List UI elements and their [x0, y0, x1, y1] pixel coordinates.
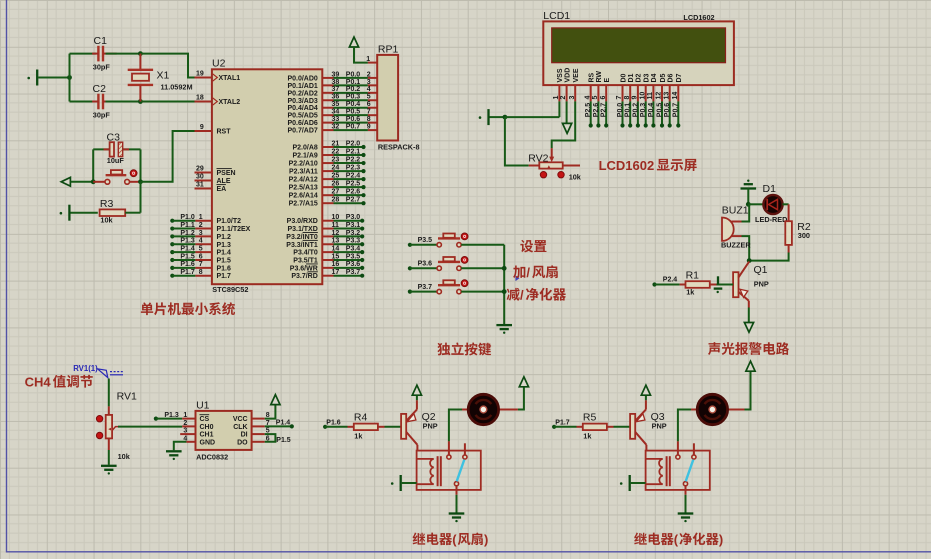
svg-text:P0.2/AD2: P0.2/AD2: [287, 90, 317, 97]
svg-text:R5: R5: [583, 411, 597, 423]
svg-text:32: 32: [332, 123, 340, 130]
wire P1.6 to R4: [325, 426, 347, 428]
wire arrow to junction: [70, 181, 93, 183]
svg-text:D7: D7: [676, 73, 683, 82]
svg-text:33: 33: [332, 116, 340, 123]
wire node to XTAL2: [140, 101, 194, 103]
pin 31 EA: [195, 181, 227, 193]
svg-text:P1.5: P1.5: [276, 437, 291, 444]
svg-text:P3.0: P3.0: [346, 214, 361, 221]
node C1/X1 junction: [138, 51, 143, 56]
wire C2 to node: [106, 101, 141, 103]
wire power to RP1 pin 1: [354, 47, 368, 63]
svg-text:1: 1: [553, 96, 560, 100]
svg-text:8: 8: [624, 96, 631, 100]
push button (reset): [93, 170, 140, 184]
svg-text:12: 12: [656, 92, 663, 100]
svg-text:XTAL2: XTAL2: [219, 99, 241, 106]
pin 26 P2.5/A13 net label P2.5: [289, 181, 366, 192]
wire VSS pin down: [558, 101, 560, 117]
pin 35 P0.4/AD4 net P0.4 to RP1 pin 6: [287, 101, 377, 112]
svg-text:P1.1: P1.1: [180, 222, 195, 229]
svg-text:1: 1: [183, 412, 187, 419]
svg-text:4: 4: [584, 96, 591, 100]
power terminal (LCD VDD, down): [563, 123, 572, 133]
svg-text:P0.6/AD6: P0.6/AD6: [287, 120, 317, 127]
pin 28 P2.7/A15 net label P2.7: [289, 197, 366, 208]
svg-text:D1: D1: [763, 183, 777, 195]
pin 9 RST: [195, 124, 232, 136]
svg-text:3: 3: [367, 79, 371, 86]
svg-text:10k: 10k: [118, 452, 131, 461]
svg-text:P1.2: P1.2: [180, 230, 195, 237]
wire coil ground: [402, 482, 417, 484]
label text 减/净化器: [507, 288, 520, 301]
svg-text:(: (: [452, 532, 457, 547]
wire node down to R3: [140, 182, 142, 213]
LCD pin 12 D5: [656, 73, 667, 127]
svg-text:6: 6: [367, 101, 371, 108]
push button (P3.5): [437, 234, 461, 248]
lead Q1 collector down: [748, 301, 750, 308]
relay RL1 core: [437, 456, 439, 486]
wire R1 to Q1 base: [717, 284, 734, 286]
wire C3 right lead: [123, 148, 141, 150]
resistor R4: [354, 424, 378, 431]
wire node to D1 anode: [748, 203, 763, 205]
LCD screen: [552, 28, 726, 63]
svg-text:22: 22: [332, 148, 340, 155]
svg-text:P2.6/A14: P2.6/A14: [289, 193, 318, 200]
pin 8 P1.7 with net label P1.7: [170, 269, 231, 280]
wire P1.7 to R5: [554, 426, 576, 428]
svg-text:U2: U2: [212, 57, 226, 69]
capacitor C1: [98, 46, 103, 62]
svg-text:P2.7/A15: P2.7/A15: [289, 201, 318, 208]
svg-text:P2.0/A8: P2.0/A8: [293, 145, 318, 152]
ground marker (Q1 base): [714, 276, 723, 293]
svg-text:P0.7: P0.7: [346, 123, 361, 130]
svg-text:P1.4: P1.4: [217, 250, 232, 257]
resistor R2 (vertical): [785, 221, 792, 245]
wire coil ground: [631, 482, 646, 484]
svg-text:13: 13: [332, 238, 340, 245]
lead buzzer bottom: [732, 235, 742, 237]
svg-text:RESPACK-8: RESPACK-8: [378, 143, 420, 152]
svg-text:D2: D2: [636, 73, 643, 82]
potentiometer RV1: [106, 415, 118, 439]
lead Q2 collector to relay RL1: [416, 445, 418, 451]
lead right R4: [378, 426, 385, 428]
svg-text:P0.5: P0.5: [346, 109, 361, 116]
svg-text:25: 25: [332, 173, 340, 180]
wire ground to node: [747, 189, 749, 205]
LED D1 LED-RED: [763, 195, 782, 214]
svg-text:17: 17: [332, 269, 340, 276]
red state dot (RV1 a): [96, 416, 102, 422]
pin 10 P3.0/RXD net label P3.0: [287, 214, 365, 225]
svg-text:27: 27: [332, 189, 340, 196]
node P3.6 (button row): [408, 261, 437, 271]
relay RL2 pole contact: [683, 482, 687, 495]
svg-text:P3.7: P3.7: [346, 269, 361, 276]
lead R1 left: [680, 284, 686, 286]
ground (relay pole): [678, 514, 694, 523]
svg-text:CH1: CH1: [200, 432, 214, 439]
lead R2 bottom: [788, 245, 790, 253]
wire button to RST: [141, 131, 195, 182]
svg-text:1: 1: [366, 56, 370, 63]
svg-text:10: 10: [332, 214, 340, 221]
svg-text:LCD1: LCD1: [543, 10, 570, 22]
pin 13 P3.3/INT1 net label P3.3: [286, 238, 364, 249]
wire DI/DO tie net P1.5: [265, 434, 276, 442]
svg-text:P3.5: P3.5: [346, 253, 361, 260]
transistor Q1 PNP: [733, 262, 749, 301]
lead Q3 collector to relay RL2: [645, 445, 647, 451]
svg-text:9: 9: [367, 123, 371, 130]
pin 2 CH0: [182, 420, 213, 431]
wire to C2 left: [70, 101, 96, 103]
power terminal (Q3 emitter): [641, 385, 650, 395]
svg-text:(: (: [674, 532, 679, 547]
pin 1 P1.0/T2 with net label P1.0: [170, 214, 241, 225]
svg-text:P3.4/T0: P3.4/T0: [293, 250, 318, 257]
crystal X1: [128, 54, 153, 102]
svg-text:C3: C3: [107, 132, 121, 144]
svg-text:P0.4: P0.4: [346, 101, 361, 108]
svg-text:5: 5: [592, 96, 599, 100]
svg-text:): ): [484, 532, 488, 547]
svg-text:VDD: VDD: [564, 68, 571, 83]
relay RL2 NO contact (dangling): [692, 443, 696, 459]
wire motor right to power: [518, 387, 524, 410]
wire button ground bus: [503, 245, 505, 324]
svg-text:P0.6: P0.6: [346, 116, 361, 123]
svg-text:5: 5: [199, 246, 203, 253]
svg-text:Q1: Q1: [754, 264, 768, 276]
red state dot (RV2 b): [558, 172, 564, 178]
svg-text:▲: ▲: [547, 165, 552, 170]
label text 声光报警电路: [708, 342, 789, 355]
wire VEE to RV2 wiper: [552, 101, 576, 148]
relay RL2 switch blade (cyan): [686, 460, 694, 482]
node P1.7: [552, 425, 556, 429]
wire/lead down to R2: [788, 204, 790, 221]
pin 36 P0.3/AD3 net P0.3 to RP1 pin 5: [287, 94, 377, 105]
wire C3 to node: [140, 149, 142, 181]
svg-text:D5: D5: [660, 73, 667, 82]
wire R4 to Q2 base: [385, 426, 402, 428]
pin 38 P0.1/AD1 net P0.1 to RP1 pin 3: [287, 79, 377, 90]
wire motor left to relay: [678, 410, 691, 442]
svg-text:2: 2: [199, 222, 203, 229]
svg-text:P1.6: P1.6: [180, 261, 195, 268]
svg-text:DI: DI: [241, 432, 248, 439]
svg-text:2: 2: [560, 96, 567, 100]
svg-text:): ): [719, 532, 723, 547]
svg-text:P0.1/AD1: P0.1/AD1: [287, 83, 317, 90]
ground (LCD VSS): [479, 109, 489, 125]
svg-text:10k: 10k: [100, 216, 113, 225]
LCD pin 4 RS: [584, 72, 595, 127]
motor fan: [462, 394, 518, 424]
svg-text:8: 8: [367, 116, 371, 123]
wire motor left to relay: [449, 410, 462, 442]
wire buzzer bottom to node: [742, 236, 750, 261]
ground (oscillator): [27, 70, 37, 86]
svg-text:23: 23: [332, 156, 340, 163]
svg-text:P1.7: P1.7: [180, 269, 195, 276]
svg-text:3: 3: [199, 230, 203, 237]
relay RL2 body: [646, 451, 710, 490]
pin 3 CH1 (unconnected): [180, 428, 213, 439]
svg-text:VEE: VEE: [573, 68, 580, 82]
svg-text:P2.0: P2.0: [346, 140, 361, 147]
svg-text:9: 9: [200, 124, 204, 131]
lead Q2 emitter up: [416, 400, 418, 409]
svg-text:14: 14: [332, 246, 340, 253]
svg-text:P1.7: P1.7: [217, 273, 232, 280]
svg-text:P3.6: P3.6: [346, 261, 361, 268]
svg-text:P0.4/AD4: P0.4/AD4: [287, 105, 317, 112]
power terminal (motor): [746, 361, 755, 371]
svg-text:P0.2: P0.2: [632, 103, 639, 118]
svg-text:P3.3: P3.3: [346, 238, 361, 245]
svg-text:39: 39: [332, 71, 340, 78]
pin 12 P3.2/INT0 net label P3.2: [286, 230, 364, 241]
wire ground to R3: [70, 212, 97, 214]
node D1/BUZ1 junction: [746, 202, 751, 207]
svg-text:P2.3/A11: P2.3/A11: [289, 169, 318, 176]
wire VCC to power: [265, 404, 276, 418]
svg-text:3: 3: [183, 428, 187, 435]
pin 15 P3.5/T1 net label P3.5: [293, 253, 364, 264]
svg-text:GND: GND: [200, 439, 216, 446]
push button (P3.7): [437, 280, 461, 294]
label text 继电器(风扇): [413, 532, 452, 545]
node P1.4: [290, 424, 294, 428]
svg-text:30pF: 30pF: [93, 110, 111, 119]
svg-text:P1.5: P1.5: [180, 253, 195, 260]
LCD pin 1 VSS: [553, 68, 564, 101]
red state dot (reset button): [130, 170, 137, 177]
svg-text:RP1: RP1: [378, 43, 399, 55]
svg-text:P0.0: P0.0: [346, 71, 361, 78]
wire VSS-junction down to RV2 left: [505, 117, 529, 165]
pin 21 P2.0/A8 net label P2.0: [293, 140, 366, 151]
svg-text:EA: EA: [217, 186, 227, 193]
svg-text:P3.7/RD: P3.7/RD: [291, 273, 317, 280]
svg-text:7: 7: [199, 261, 203, 268]
node button right junction: [138, 179, 143, 184]
LCD pin 6 E: [600, 78, 611, 128]
lead buzzer top: [732, 221, 742, 223]
svg-text:30: 30: [196, 173, 204, 180]
svg-text:XTAL1: XTAL1: [219, 75, 241, 82]
wire ground to node: [38, 77, 69, 79]
wire emitter to power: [416, 395, 418, 400]
label text 单片机最小系统: [141, 302, 235, 315]
svg-text:/: /: [526, 265, 530, 280]
lead RV1 top: [108, 406, 110, 415]
lead left R5: [577, 426, 583, 428]
wire VDD pin to power-down terminal: [566, 101, 568, 123]
pin 17 P3.7/RD net label P3.7: [291, 269, 364, 280]
svg-text:4: 4: [199, 238, 203, 245]
pin 8 VCC: [233, 412, 270, 423]
pin 27 P2.6/A14 net label P2.6: [289, 189, 366, 200]
svg-text:DO: DO: [237, 439, 248, 446]
node bus/P3.6 junction: [502, 266, 507, 271]
svg-text:36: 36: [332, 94, 340, 101]
svg-text:RW: RW: [596, 71, 603, 83]
svg-text:C2: C2: [93, 83, 107, 95]
svg-text:R4: R4: [354, 411, 368, 423]
svg-text:10: 10: [639, 92, 646, 100]
power terminal (U1 VCC): [271, 395, 280, 405]
relay RL1 coil: [418, 459, 434, 484]
wire R5 to Q3 base: [614, 426, 631, 428]
svg-text:D6: D6: [668, 73, 675, 82]
wire D1 cathode to R2: [782, 203, 788, 205]
svg-text:PNP: PNP: [754, 280, 769, 289]
node osc-gnd junction: [67, 75, 72, 80]
terminal arrow (reset net, pointing left): [61, 177, 70, 186]
svg-text:P1.6: P1.6: [217, 265, 232, 272]
pin 5 P1.4 with net label P1.4: [170, 246, 231, 257]
svg-text:11: 11: [332, 222, 340, 229]
resistor R5: [583, 424, 607, 431]
svg-text:P2.3: P2.3: [346, 164, 361, 171]
svg-text:P0.4: P0.4: [648, 103, 655, 118]
svg-text:2: 2: [367, 71, 371, 78]
LCD pin 14 D7: [672, 73, 683, 127]
svg-text:P3.2: P3.2: [346, 230, 361, 237]
lead Q3 emitter up: [645, 400, 647, 409]
IC U1 ADC0832 body: [196, 411, 252, 450]
svg-text:P2.7: P2.7: [601, 103, 608, 118]
wire C1 to node: [106, 53, 141, 55]
svg-text:P3.1/TXD: P3.1/TXD: [287, 226, 317, 233]
voltage probe (blue): [98, 369, 124, 378]
svg-text:P1.3: P1.3: [217, 242, 232, 249]
svg-text:11.0592M: 11.0592M: [161, 83, 193, 92]
svg-text:STC89C52: STC89C52: [212, 285, 248, 294]
lead left R4: [348, 426, 354, 428]
svg-text:P1.2: P1.2: [217, 234, 232, 241]
svg-text:P0.2: P0.2: [346, 86, 361, 93]
LCD pin 9 D2: [632, 73, 643, 127]
relay RL1 common contact: [447, 441, 451, 459]
svg-text:ALE: ALE: [217, 178, 231, 185]
svg-text:U1: U1: [196, 399, 210, 411]
pin 37 P0.2/AD2 net P0.2 to RP1 pin 4: [287, 86, 377, 97]
svg-text:P1.1/T2EX: P1.1/T2EX: [217, 226, 251, 233]
ground (alarm top, flipped): [741, 180, 757, 189]
svg-text:/: /: [520, 287, 524, 302]
wire probe/wiper top: [108, 379, 110, 407]
svg-text:▲: ▲: [108, 427, 113, 432]
svg-text:P1.4: P1.4: [180, 246, 195, 253]
terminal arrow down (Q1): [744, 323, 753, 333]
pin 5 DI: [241, 428, 270, 439]
pin 32 P0.7/AD7 net P0.7 to RP1 pin 9: [287, 123, 377, 134]
svg-text:21: 21: [332, 140, 340, 147]
pin 14 P3.4/T0 net label P3.4: [293, 246, 364, 257]
pin 11 P3.1/TXD net label P3.1: [287, 222, 364, 233]
wire buzzer top to node: [742, 204, 750, 221]
wire vertical gnd bus: [69, 54, 71, 102]
node P3.5 (button row): [408, 237, 437, 247]
svg-text:CS: CS: [200, 416, 210, 423]
wire button to bus: [461, 291, 504, 293]
svg-text:P1.7: P1.7: [555, 419, 570, 426]
wire P1.3 to U1 CS: [156, 418, 182, 420]
svg-text:7: 7: [367, 109, 371, 116]
ground (RL2 coil): [620, 475, 630, 491]
LCD pin 11 D4: [647, 73, 658, 127]
svg-text:P0.5: P0.5: [656, 103, 663, 118]
svg-text:13: 13: [663, 92, 670, 100]
svg-text:P3.5/T1: P3.5/T1: [293, 257, 318, 264]
pin 3 P1.2 with net label P1.2: [170, 230, 231, 241]
pin 1 CS: [182, 412, 209, 423]
wire R3 to node: [125, 212, 140, 214]
node bus/P3.7 junction: [502, 289, 507, 294]
svg-text:1: 1: [199, 214, 203, 221]
svg-text:P0.1: P0.1: [625, 103, 632, 118]
svg-text:C1: C1: [94, 35, 108, 47]
svg-text:CLK: CLK: [233, 424, 247, 431]
svg-text:26: 26: [332, 181, 340, 188]
push button (P3.6): [437, 257, 461, 270]
capacitor C3 (electrolytic): [110, 142, 123, 156]
svg-text:30pF: 30pF: [93, 63, 111, 72]
svg-text:34: 34: [332, 109, 340, 116]
svg-text:P0.7/AD7: P0.7/AD7: [287, 128, 317, 135]
capacitor C2: [98, 94, 103, 110]
wire motor right to power: [745, 371, 751, 410]
svg-text:R3: R3: [100, 198, 114, 210]
pin 39 P0.0/AD0 net P0.0 to RP1 pin 2: [287, 71, 377, 82]
power terminal (motor): [519, 377, 528, 387]
svg-text:P3.6/WR: P3.6/WR: [290, 265, 318, 272]
svg-text:24: 24: [332, 164, 340, 171]
wire emitter to power: [645, 395, 647, 400]
pin 18 XTAL2: [195, 94, 241, 106]
svg-text:1k: 1k: [583, 432, 592, 441]
svg-text:P1.6: P1.6: [326, 419, 341, 426]
svg-text:P1.5: P1.5: [217, 257, 232, 264]
pin 7 CLK net P1.4: [233, 420, 269, 431]
red state dot (button P3.5): [461, 233, 468, 240]
wire C3 left lead: [93, 148, 109, 150]
svg-text:RST: RST: [217, 129, 232, 136]
svg-text:P0.0/AD0: P0.0/AD0: [287, 75, 317, 82]
svg-text:11: 11: [647, 92, 654, 100]
svg-text:ADC0832: ADC0832: [196, 452, 228, 461]
ground (buttons): [496, 325, 512, 334]
svg-text:P0.3/AD3: P0.3/AD3: [287, 98, 317, 105]
svg-text:9: 9: [632, 96, 639, 100]
relay RL1 switch blade (cyan): [457, 460, 465, 482]
wire button to bus: [461, 267, 504, 269]
node Q1 emitter junction: [747, 258, 752, 263]
pin 4 GND: [183, 435, 215, 446]
svg-text:15: 15: [332, 253, 340, 260]
node C2/X1 junction: [138, 99, 143, 104]
